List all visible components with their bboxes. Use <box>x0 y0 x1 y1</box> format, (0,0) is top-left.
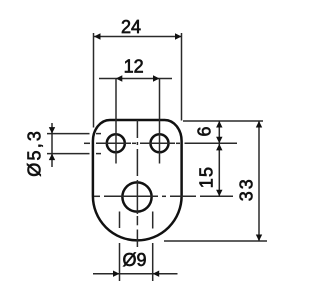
plate outline <box>93 120 182 240</box>
crosshair left hole <box>101 142 131 144</box>
centerline horizontal small holes <box>84 142 237 144</box>
hole right Ø5.3 <box>151 134 169 152</box>
dimension 33 <box>164 121 267 241</box>
dimension 6 and 15 shared line <box>183 121 263 196</box>
dimension Ø5.3 <box>47 123 101 167</box>
crosshair right hole <box>145 142 175 144</box>
dimension 12 <box>99 79 172 164</box>
svg-text:33: 33 <box>237 177 257 201</box>
svg-text:15: 15 <box>197 166 217 188</box>
svg-text:24: 24 <box>121 17 141 37</box>
svg-text:Ø5,3: Ø5,3 <box>25 129 45 177</box>
svg-text:6: 6 <box>195 126 215 136</box>
dimension 24 <box>94 33 182 128</box>
centerline vertical plate axis <box>136 120 138 247</box>
dimension Ø9 <box>93 212 178 282</box>
centerline horizontal big hole <box>94 195 233 197</box>
svg-text:12: 12 <box>124 57 144 77</box>
hole left Ø5.3 <box>107 134 125 152</box>
hole center Ø9 <box>122 182 151 211</box>
svg-text:Ø9: Ø9 <box>122 250 146 270</box>
